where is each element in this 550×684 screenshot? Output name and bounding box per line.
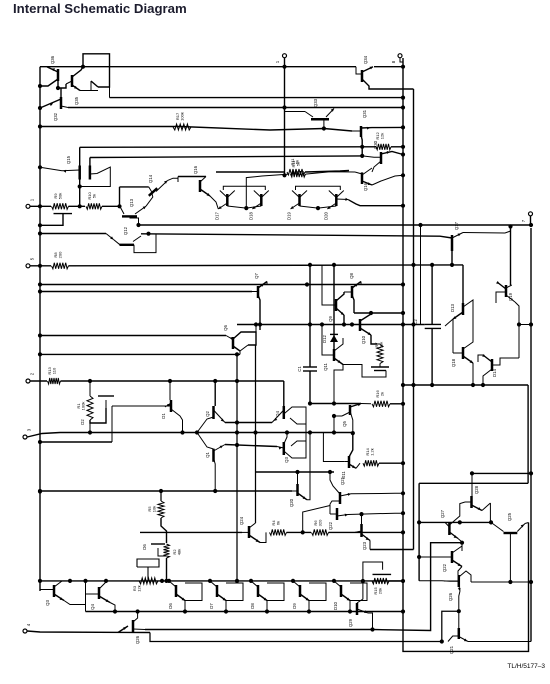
svg-text:Q28: Q28	[474, 485, 479, 494]
svg-text:1.2k: 1.2k	[370, 448, 375, 456]
svg-text:D6: D6	[168, 603, 173, 609]
svg-text:Q23: Q23	[362, 541, 367, 550]
svg-text:Internal Schematic Diagram: Internal Schematic Diagram	[13, 1, 187, 16]
svg-text:C1: C1	[297, 366, 302, 372]
svg-text:D20: D20	[323, 211, 328, 219]
svg-text:Q18: Q18	[451, 358, 456, 367]
svg-text:Q4: Q4	[90, 604, 95, 610]
svg-text:10k: 10k	[152, 506, 157, 512]
svg-text:Q16: Q16	[363, 182, 368, 191]
svg-text:Q26: Q26	[448, 592, 453, 601]
svg-text:Q16: Q16	[193, 165, 198, 174]
svg-text:Q31: Q31	[362, 109, 367, 118]
svg-text:Q3: Q3	[284, 457, 289, 463]
svg-text:D1: D1	[161, 413, 166, 419]
svg-text:D7: D7	[209, 603, 214, 609]
svg-text:Q26: Q26	[135, 635, 140, 644]
svg-text:Q11: Q11	[323, 362, 328, 370]
svg-text:Q8: Q8	[349, 273, 354, 279]
svg-text:D17: D17	[214, 211, 219, 219]
svg-text:110: 110	[52, 367, 57, 374]
svg-text:TL/H/5177–3: TL/H/5177–3	[507, 663, 545, 670]
svg-text:100k: 100k	[81, 402, 86, 411]
svg-text:48k: 48k	[177, 549, 182, 555]
svg-text:200: 200	[58, 251, 63, 258]
svg-text:D6: D6	[142, 544, 147, 550]
svg-text:Q15: Q15	[66, 155, 71, 164]
svg-text:D14: D14	[492, 368, 497, 376]
svg-text:Q1: Q1	[205, 452, 210, 458]
svg-text:D12: D12	[322, 334, 327, 342]
svg-text:Q29: Q29	[348, 618, 353, 627]
svg-text:D8: D8	[250, 603, 255, 609]
svg-text:50k: 50k	[58, 193, 63, 199]
svg-text:D9: D9	[292, 603, 297, 609]
svg-text:Q6: Q6	[223, 325, 228, 331]
svg-text:Q34: Q34	[363, 55, 368, 64]
svg-text:Q20: Q20	[289, 498, 294, 507]
svg-text:Q21: Q21	[340, 476, 345, 485]
svg-text:D18: D18	[248, 211, 253, 219]
svg-text:Q2: Q2	[205, 411, 210, 417]
svg-text:12k: 12k	[137, 585, 142, 591]
svg-text:5k: 5k	[92, 194, 97, 198]
svg-text:Q14: Q14	[148, 174, 153, 183]
svg-text:12k: 12k	[380, 133, 385, 139]
svg-text:C2: C2	[413, 319, 418, 325]
svg-text:D10: D10	[333, 601, 338, 609]
svg-text:D2: D2	[80, 419, 85, 425]
svg-text:50k: 50k	[379, 342, 384, 348]
svg-text:Q10: Q10	[361, 335, 366, 344]
svg-text:Q22: Q22	[442, 563, 447, 572]
svg-text:Q9: Q9	[328, 316, 333, 322]
svg-text:Q27: Q27	[440, 509, 445, 518]
svg-text:2k: 2k	[380, 392, 385, 396]
svg-text:100k: 100k	[180, 112, 185, 121]
svg-text:Q3: Q3	[45, 600, 50, 606]
svg-text:320: 320	[318, 519, 323, 526]
svg-text:Q30: Q30	[373, 140, 378, 149]
svg-text:5k: 5k	[296, 162, 301, 166]
svg-text:Q12: Q12	[123, 226, 128, 235]
svg-text:Q32: Q32	[53, 112, 58, 121]
svg-text:Q21: Q21	[449, 645, 454, 654]
svg-text:Q24: Q24	[239, 516, 244, 525]
svg-text:Q33: Q33	[313, 98, 318, 107]
svg-text:Q22: Q22	[328, 521, 333, 530]
svg-text:Q7: Q7	[254, 273, 259, 279]
svg-text:Q17: Q17	[454, 221, 459, 230]
svg-text:20k: 20k	[378, 588, 383, 594]
svg-text:D19: D19	[287, 211, 292, 219]
svg-text:Q35: Q35	[74, 96, 79, 105]
svg-text:Q36: Q36	[50, 55, 55, 64]
svg-text:Q5: Q5	[342, 421, 347, 427]
svg-text:Q25: Q25	[507, 512, 512, 521]
svg-text:D13: D13	[450, 303, 455, 311]
svg-text:6k: 6k	[276, 521, 281, 525]
svg-text:Q4: Q4	[275, 411, 280, 417]
svg-text:Q19: Q19	[508, 292, 513, 301]
svg-text:Q13: Q13	[129, 198, 134, 207]
